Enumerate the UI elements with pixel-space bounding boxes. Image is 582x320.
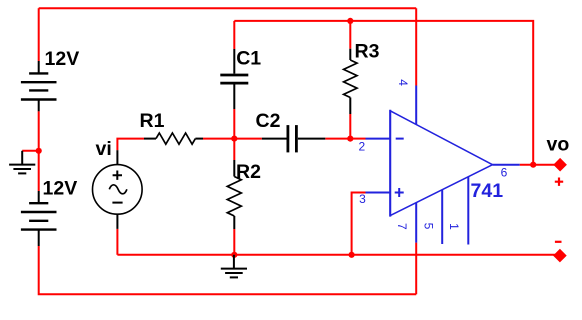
pin 5 stub xyxy=(441,190,443,244)
ground (battery midpoint) xyxy=(21,151,23,165)
svg-text:R2: R2 xyxy=(236,161,261,183)
wire: non-inverting input to ground rail red xyxy=(352,193,366,255)
node B junction xyxy=(347,136,353,142)
svg-text:5: 5 xyxy=(421,223,435,230)
pin 7 blue segment xyxy=(415,203,417,243)
wire: V+ drop to pin4 red xyxy=(415,8,417,85)
wire: vi top to R1 xyxy=(117,139,144,151)
terminal vo + xyxy=(553,158,567,172)
wire: C1 bottom to node A xyxy=(233,109,235,139)
battery V2 12V xyxy=(38,191,40,203)
wire: node B to inverting input red xyxy=(350,138,365,140)
wire: vi bottom to ground rail xyxy=(116,229,118,255)
resistor R3 xyxy=(349,49,351,60)
resistor R2 xyxy=(233,160,235,177)
node A junction xyxy=(231,136,237,142)
op-amp minus symbol xyxy=(396,138,404,140)
wire: C2 right to node B xyxy=(325,138,350,140)
wire: R3 bottom to node B xyxy=(349,114,351,139)
op-amp U1 741 xyxy=(389,110,391,217)
node: R3 top junction xyxy=(347,18,353,24)
wire: battery midpoint vertical xyxy=(38,111,40,191)
op-amp plus symbol xyxy=(395,188,404,197)
wire: node A to C2 xyxy=(234,138,262,140)
wire: node A to R2 xyxy=(233,139,235,160)
wire: R3 top lead red xyxy=(349,21,351,49)
svg-text:6: 6 xyxy=(501,166,508,180)
svg-text:C1: C1 xyxy=(236,48,261,70)
terminal minus xyxy=(553,249,567,263)
wire: output blue, pin 6 xyxy=(493,164,520,166)
wire: R1 right to node A xyxy=(203,138,234,140)
svg-text:C2: C2 xyxy=(256,110,281,132)
wire: inverting input blue, pin 2 xyxy=(366,138,391,140)
battery V1 12V xyxy=(38,61,40,73)
node: output feedback junction xyxy=(530,162,536,168)
svg-text:R1: R1 xyxy=(140,110,165,132)
wire: battery2 bottom to bottom rail xyxy=(39,246,417,294)
wire: non-inverting input blue, pin 3 xyxy=(366,192,391,194)
svg-text:vo: vo xyxy=(547,134,570,156)
wire: left vertical battery top xyxy=(38,8,40,61)
svg-text:12V: 12V xyxy=(43,178,78,200)
svg-text:741: 741 xyxy=(471,180,504,202)
wire: output red to vo terminal xyxy=(520,164,560,166)
capacitor C2 xyxy=(262,138,287,140)
resistor R1 xyxy=(144,138,156,140)
ground (R2 bottom) xyxy=(233,255,235,269)
pin 1 stub xyxy=(467,177,469,245)
pin 4 blue segment xyxy=(415,86,417,125)
svg-text:R3: R3 xyxy=(355,41,380,63)
svg-text:7: 7 xyxy=(395,223,409,230)
source vi (AC) xyxy=(116,150,118,165)
svg-text:2: 2 xyxy=(359,140,366,154)
svg-text:3: 3 xyxy=(359,192,366,206)
node: battery midpoint junction xyxy=(36,148,42,154)
svg-text:4: 4 xyxy=(396,79,410,86)
wire: ground rail xyxy=(117,254,560,256)
wire: outer top rail (V+) xyxy=(39,7,417,9)
svg-text:1: 1 xyxy=(447,223,461,230)
wire: inner top rail (feedback) xyxy=(234,21,533,165)
svg-text:vi: vi xyxy=(96,138,112,160)
node: R2 ground junction xyxy=(231,252,237,258)
node: +input ground junction xyxy=(349,252,355,258)
wire: pin7 drop to bottom rail xyxy=(415,243,417,295)
wire: ground branch xyxy=(22,150,39,152)
wire: C1 top lead red xyxy=(233,21,235,49)
capacitor C1 xyxy=(233,49,235,74)
wire: R2 bottom to ground rail xyxy=(233,229,235,255)
svg-text:12V: 12V xyxy=(45,48,80,70)
